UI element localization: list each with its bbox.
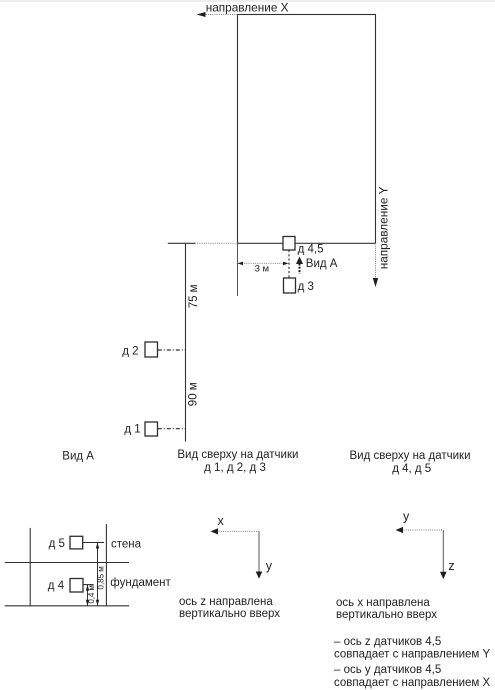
svg-text:д 1: д 1: [124, 424, 140, 436]
sensor axis line (75м / 90м): [185, 243, 187, 441]
svg-text:3 м: 3 м: [255, 263, 269, 274]
svg-text:Вид А: Вид А: [62, 450, 94, 462]
top scan artifact line (decorative): [0, 0, 495, 2]
arrow направление X: [197, 12, 238, 17]
svg-text:– ось z датчиков 4,5: – ось z датчиков 4,5: [334, 636, 441, 648]
svg-text:д 2: д 2: [122, 345, 138, 357]
note ось z направлена вертикально вверх: [179, 596, 280, 620]
sensor д2: [145, 342, 158, 357]
extension line below building corner: [237, 243, 239, 296]
building outline (plan view): [238, 15, 376, 244]
svg-text:направление Y: направление Y: [377, 186, 391, 269]
svg-text:д 5: д 5: [49, 538, 65, 550]
svg-text:д 4, д 5: д 4, д 5: [392, 463, 431, 475]
svg-text:75 м: 75 м: [188, 284, 200, 308]
svg-text:y: y: [403, 510, 410, 524]
svg-text:0,85 м: 0,85 м: [97, 566, 106, 589]
svg-text:Вид сверху на датчики: Вид сверху на датчики: [349, 450, 470, 462]
svg-text:совпадает с направлением X: совпадает с направлением X: [334, 677, 491, 689]
svg-text:y: y: [266, 559, 273, 573]
svg-text:вертикально вверх: вертикально вверх: [336, 609, 437, 621]
caption Вид сверху на датчики д 4, д 5: [349, 450, 470, 475]
leader from д5: [83, 542, 104, 544]
svg-text:x: x: [218, 514, 225, 528]
svg-text:д 4,5: д 4,5: [298, 243, 324, 255]
sensor д3: [284, 278, 296, 293]
svg-text:фундамент: фундамент: [110, 577, 171, 589]
dimension 0,85 м: [96, 543, 99, 606]
svg-text:Вид сверху на датчики: Вид сверху на датчики: [177, 449, 298, 461]
leader from д4: [83, 584, 94, 586]
svg-text:z: z: [448, 559, 454, 573]
view arrow Вид А: [296, 257, 303, 274]
sensor д1: [145, 422, 158, 436]
wall outer line (side view): [29, 528, 31, 606]
axes x/y (middle): [211, 528, 263, 579]
foundation top line: [5, 562, 129, 564]
svg-text:совпадает с направлением Y: совпадает с направлением Y: [334, 649, 491, 661]
caption Вид сверху на датчики д 1, д 2, д 3: [177, 449, 298, 474]
wall line стена (side view): [105, 524, 107, 606]
dimension 0,4 м: [86, 585, 89, 606]
svg-text:стена: стена: [111, 539, 142, 551]
ground line: [5, 605, 129, 607]
svg-text:– ось у датчиков 4,5: – ось у датчиков 4,5: [334, 664, 441, 676]
svg-text:вертикально вверх: вертикально вверх: [179, 608, 280, 620]
note ось x направлена вертикально вверх: [336, 597, 437, 621]
svg-text:д 1, д 2, д 3: д 1, д 2, д 3: [204, 462, 266, 474]
axis направление Y (down arrow from building corner): [373, 243, 378, 287]
axes y/z (right): [396, 527, 447, 579]
svg-text:направление X: направление X: [206, 0, 289, 14]
svg-text:д 3: д 3: [298, 281, 314, 293]
wall base line extension (left of building): [168, 242, 238, 244]
sensor д5: [70, 536, 83, 549]
svg-text:ось z направлена: ось z направлена: [179, 596, 273, 608]
sensor д4,5: [283, 237, 295, 251]
svg-text:ось x направлена: ось x направлена: [336, 597, 430, 609]
dimension 3 м: [238, 262, 289, 266]
leader д2 (dash-dot): [158, 349, 186, 351]
svg-text:д 4: д 4: [48, 580, 65, 592]
svg-text:Вид А: Вид А: [306, 258, 338, 270]
sensor д4: [70, 579, 83, 593]
svg-text:90 м: 90 м: [188, 382, 200, 406]
leader д1 (dash-dot): [158, 428, 186, 430]
dashed link д4,5 to д3: [288, 250, 290, 278]
note оси датчиков 4,5: [334, 636, 491, 689]
svg-text:0,4 м: 0,4 м: [87, 585, 96, 603]
